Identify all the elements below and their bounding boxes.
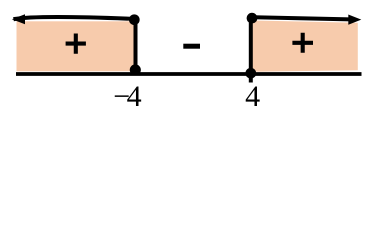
dot at 4 on number line (245, 68, 256, 79)
plus sign left region (66, 34, 86, 54)
vertical line at 4 (249, 18, 253, 83)
right interval top line (252, 17, 356, 19)
right arrowhead (348, 15, 361, 25)
number line (16, 72, 362, 76)
vertical line at -4 (134, 19, 138, 72)
right region shading (251, 21, 358, 72)
minus sign middle region (183, 44, 200, 49)
svg-text:4: 4 (127, 80, 142, 113)
dot at -4 on number line (130, 64, 141, 75)
svg-text:4: 4 (245, 80, 260, 113)
left interval top line (14, 17, 135, 19)
left region shading (17, 21, 136, 71)
left arrowhead (12, 14, 25, 24)
plus sign right region (292, 33, 313, 53)
dot at -4 top (129, 14, 140, 25)
dot at 4 top (247, 13, 258, 24)
